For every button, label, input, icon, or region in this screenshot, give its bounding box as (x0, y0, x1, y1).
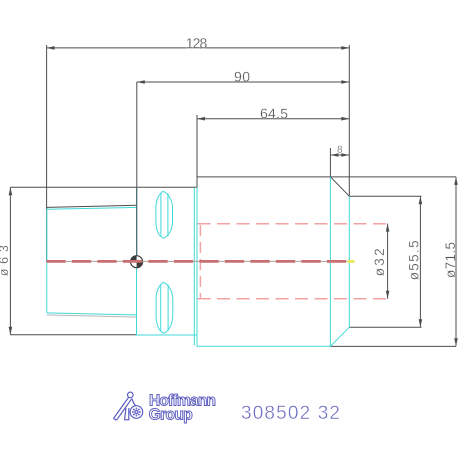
svg-text:64.5: 64.5 (260, 105, 288, 121)
svg-text:ø71.5: ø71.5 (443, 242, 458, 278)
svg-text:ø55.5: ø55.5 (406, 240, 421, 280)
svg-text:ø63: ø63 (0, 245, 11, 276)
svg-text:Group: Group (149, 407, 193, 424)
svg-text:ø32: ø32 (372, 248, 387, 276)
svg-text:8: 8 (337, 145, 343, 156)
svg-text:90: 90 (234, 68, 250, 84)
svg-text:308502 32: 308502 32 (241, 403, 340, 424)
svg-text:128: 128 (186, 35, 208, 51)
